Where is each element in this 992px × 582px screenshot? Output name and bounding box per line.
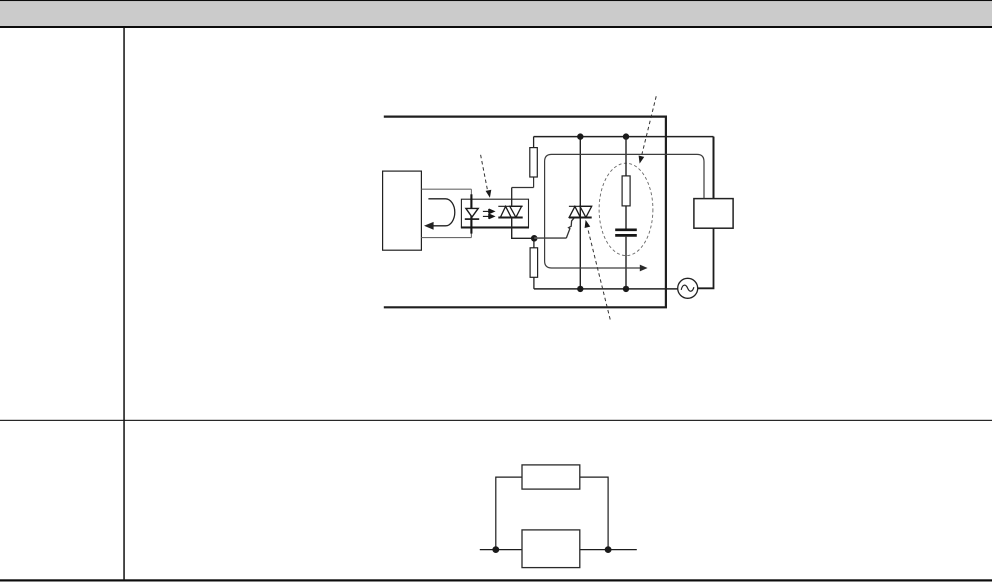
wire phototriac bottom lead [512, 218, 535, 239]
node bottom rail left [577, 286, 583, 292]
wire main right [580, 549, 637, 551]
table bottom border [0, 579, 992, 581]
resistor R3 snubber [622, 176, 630, 206]
resistor Rb bottom [522, 530, 580, 568]
outer SSR enclosure box (open left) [384, 117, 666, 308]
wire gate [534, 218, 574, 239]
load block [694, 199, 733, 229]
wire LED vertical lead [470, 189, 472, 237]
wire input feed top [421, 188, 471, 190]
capacitor C1 [615, 230, 637, 236]
node top rail right [623, 133, 629, 139]
light emission arrows [483, 209, 494, 219]
wire R1 feed [512, 187, 534, 189]
resistor Ra top [522, 465, 580, 489]
column divider [123, 28, 125, 579]
node gate junction [531, 235, 538, 242]
wire top rail to load [713, 137, 715, 199]
optocoupler U1 body [461, 199, 529, 227]
wire R3 to C1 [625, 206, 627, 229]
input control block [383, 171, 422, 250]
wire main left [480, 549, 522, 551]
phototriac output of U1 [498, 206, 522, 217]
output current path with arrow [545, 154, 704, 271]
wire load to AC source [698, 228, 714, 288]
header bottom rule [0, 26, 992, 28]
resistor R1 [530, 137, 538, 188]
bottom rail [534, 288, 678, 290]
input current loop arrow [424, 199, 455, 230]
triac Q1 vertical wire [579, 137, 581, 289]
table top border [0, 0, 992, 1]
callout arrow to snubber [637, 96, 656, 164]
callout arrow to triac [583, 219, 610, 319]
wire snubber top [625, 137, 627, 176]
top rail [534, 136, 714, 138]
wire branch right [580, 477, 608, 549]
wire branch left [496, 477, 522, 549]
AC source V1 [678, 278, 698, 298]
wire input feed bottom [421, 237, 471, 239]
triac Q1 [569, 206, 592, 217]
LED D1 [465, 208, 479, 219]
node right [605, 546, 612, 553]
header bar [0, 1, 992, 26]
wire C1 bottom [625, 237, 627, 289]
node bottom rail right [623, 286, 629, 292]
node top rail left [577, 133, 583, 139]
node left [492, 546, 499, 553]
wire phototriac top lead [511, 188, 513, 207]
resistor R2 [530, 238, 538, 289]
snubber ellipse [599, 163, 653, 255]
row divider [0, 420, 992, 421]
callout arrow to optocoupler [481, 155, 493, 199]
